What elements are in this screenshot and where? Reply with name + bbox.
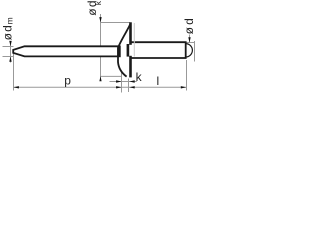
arrowhead dk top (99, 17, 101, 22)
mandrel ball head (186, 44, 193, 57)
leader line dk vertical (100, 14, 102, 81)
leader dm top (10, 44, 12, 63)
ref line dm top (3, 46, 14, 48)
mandrel break notch in head (127, 44, 130, 57)
extension line ball end (194, 41, 196, 62)
arrowhead d right (188, 37, 190, 42)
svg-text:m: m (4, 17, 14, 24)
arrowhead k left (116, 80, 121, 82)
svg-text:l: l (157, 74, 160, 88)
arrowhead p right (116, 86, 121, 88)
dimension line k (110, 81, 137, 83)
svg-text:ød: ød (1, 24, 15, 40)
arrowhead l right (181, 86, 186, 88)
ref line dk bottom (101, 75, 122, 77)
svg-text:k: k (136, 70, 143, 84)
ref line d right (186, 42, 195, 44)
ref line dm bottom (3, 56, 14, 58)
faint inner bore line (133, 23, 135, 57)
svg-text:ød: ød (182, 16, 196, 34)
dimension line p and l shared (14, 86, 187, 88)
arrowhead dk bottom (99, 76, 101, 81)
arrowhead k right (129, 80, 134, 82)
rivet dome head curve (118, 23, 131, 77)
rivet body (131, 42, 186, 58)
mandrel shaft (13, 46, 119, 56)
arrowhead dm top (9, 41, 11, 46)
arrowhead p left (14, 86, 19, 88)
extension line body end (186, 60, 188, 91)
arrowhead l left (129, 86, 134, 88)
ref line dk top (101, 22, 131, 24)
svg-text:p: p (64, 74, 71, 88)
arrowhead dm bottom (9, 57, 11, 62)
extension line mandrel tip (13, 54, 15, 91)
extension line dome apex (121, 70, 123, 93)
rivet dome head fill (118, 23, 131, 78)
mandrel end bar (117, 46, 120, 58)
leader d right vertical (189, 35, 191, 43)
head underside line lower (129, 56, 132, 78)
extension line head underside (128, 79, 130, 93)
head underside line upper (129, 22, 132, 45)
